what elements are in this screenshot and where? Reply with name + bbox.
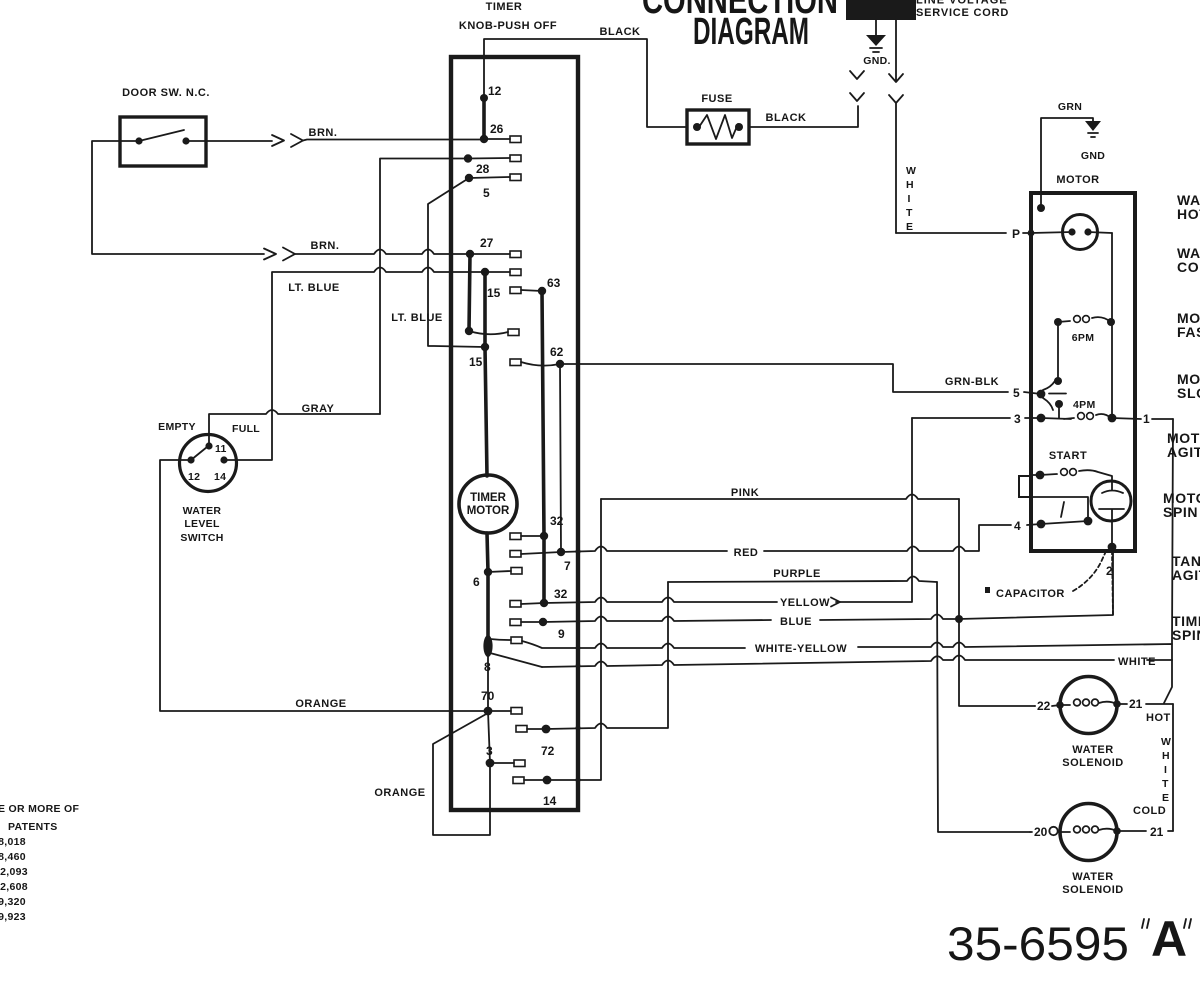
svg-text:BLACK: BLACK bbox=[766, 112, 807, 124]
svg-text:MOTOR: MOTOR bbox=[1056, 174, 1099, 186]
svg-text:62: 62 bbox=[550, 345, 564, 359]
svg-text:12,093: 12,093 bbox=[0, 866, 28, 878]
wire door switch left to BRN row2 bbox=[92, 141, 264, 254]
door switch blade bbox=[139, 130, 184, 141]
terminal 32 lower bbox=[510, 601, 521, 608]
svg-text:CAPACITOR: CAPACITOR bbox=[996, 588, 1065, 600]
wire 62 to GRN-BLK to motor 5 bbox=[560, 364, 1041, 394]
svg-text:GND: GND bbox=[1081, 150, 1105, 162]
terminal 5 bbox=[510, 174, 521, 181]
coil 6PM bbox=[1054, 318, 1062, 326]
svg-text:W: W bbox=[906, 165, 916, 177]
wire PURPLE horizontal bbox=[668, 577, 937, 583]
terminal 27 bbox=[510, 251, 521, 258]
ground symbol (motor) bbox=[1085, 121, 1101, 131]
svg-text:21: 21 bbox=[1150, 825, 1164, 839]
label CAPACITOR with leader bbox=[985, 587, 990, 593]
svg-text:LINE VOLTAGE: LINE VOLTAGE bbox=[916, 0, 1008, 7]
svg-text:AGIT: AGIT bbox=[1172, 567, 1200, 583]
wire 20 bbox=[1030, 831, 1050, 834]
svg-text:GND.: GND. bbox=[863, 55, 890, 67]
wire terminal to node 32 lower bbox=[521, 603, 544, 604]
svg-text:GRAY: GRAY bbox=[302, 403, 335, 415]
node 32 upper bbox=[540, 532, 548, 540]
svg-text:LT. BLUE: LT. BLUE bbox=[288, 282, 339, 294]
svg-text:1: 1 bbox=[1143, 412, 1150, 426]
node 70 bbox=[484, 707, 493, 716]
svg-text:32: 32 bbox=[550, 514, 564, 528]
WLS contact 11 bbox=[205, 442, 212, 449]
svg-text:88,018: 88,018 bbox=[0, 836, 26, 848]
wire GRAY: down to water level switch 11, hop at 272 bbox=[209, 410, 380, 446]
cold solenoid coil bbox=[1058, 829, 1117, 832]
terminal 32 upper bbox=[510, 533, 521, 540]
svg-text:YELLOW: YELLOW bbox=[780, 597, 830, 609]
svg-text:AGIT: AGIT bbox=[1167, 444, 1200, 460]
svg-text:SERVICE CORD: SERVICE CORD bbox=[916, 7, 1009, 19]
node 2 bbox=[1108, 543, 1117, 552]
svg-text:21: 21 bbox=[1129, 697, 1143, 711]
wire terminal 7 to node 7 bbox=[521, 552, 561, 554]
WLS blade 12-11 bbox=[191, 447, 207, 460]
svg-text:START: START bbox=[1049, 450, 1087, 462]
node 5 motor bbox=[1037, 390, 1046, 399]
wire white (from blob) bbox=[542, 656, 1172, 668]
terminal 15 upper bbox=[510, 287, 521, 294]
node P on motor box bbox=[1028, 230, 1035, 237]
svg-text:BLACK: BLACK bbox=[600, 26, 641, 38]
node blue-pink junction bbox=[955, 615, 963, 623]
protector leads bbox=[1031, 232, 1112, 233]
svg-text:COLD: COLD bbox=[1177, 259, 1200, 275]
svg-text:HOT: HOT bbox=[1177, 206, 1200, 222]
wire GRN to ground bbox=[1041, 118, 1093, 208]
centrifugal switch circle bbox=[1091, 481, 1131, 521]
wire black lead stub to fuse bbox=[749, 106, 858, 127]
svg-text:6: 6 bbox=[473, 575, 480, 589]
terminal 7 bbox=[510, 551, 521, 558]
junction blob bbox=[483, 635, 492, 657]
svg-text:WHITE-YELLOW: WHITE-YELLOW bbox=[755, 643, 847, 655]
terminal 28 bbox=[510, 155, 521, 162]
node 3 bbox=[486, 759, 495, 768]
node 27 bbox=[466, 250, 474, 258]
WLS contact 14 bbox=[220, 456, 227, 463]
svg-text:E: E bbox=[1162, 792, 1169, 804]
node 331 bbox=[465, 327, 473, 335]
wire motor 3 feed bbox=[912, 417, 1041, 419]
svg-text:28: 28 bbox=[476, 162, 490, 176]
svg-text:49,320: 49,320 bbox=[0, 896, 26, 908]
water level switch circle bbox=[180, 435, 237, 492]
WLS contact 12 bbox=[187, 456, 194, 463]
svg-text:14: 14 bbox=[214, 471, 226, 483]
svg-text:BRN.: BRN. bbox=[309, 127, 338, 139]
door switch contacts bbox=[135, 137, 142, 144]
timer box bbox=[451, 57, 578, 810]
svg-text:TIMER: TIMER bbox=[470, 492, 506, 504]
svg-text:52,608: 52,608 bbox=[0, 881, 28, 893]
wire lt.blue: full contact 14 up and right to timer, hops bbox=[224, 268, 485, 461]
motor box bbox=[1031, 193, 1135, 551]
terminal 6 bbox=[511, 568, 522, 575]
svg-text:49,923: 49,923 bbox=[0, 911, 26, 923]
white lead with arrow bbox=[889, 20, 903, 82]
svg-text:7: 7 bbox=[564, 559, 571, 573]
wire BRN row1 to timer 26 bbox=[303, 140, 485, 141]
bus blob down to 70 and 3 bbox=[488, 655, 490, 810]
svg-text:WATER: WATER bbox=[1072, 871, 1113, 883]
svg-text:FUSE: FUSE bbox=[701, 93, 732, 105]
svg-text:DOOR SW. N.C.: DOOR SW. N.C. bbox=[122, 87, 210, 99]
svg-text:GRN: GRN bbox=[1058, 101, 1082, 113]
node cold right bbox=[1113, 827, 1121, 835]
wire terminal to node 62 bbox=[521, 362, 560, 366]
node crossings on timer edge bbox=[575, 549, 580, 554]
node 72 bbox=[542, 725, 551, 734]
wire 70 to terminal bbox=[488, 710, 511, 712]
svg-text:98,460: 98,460 bbox=[0, 851, 26, 863]
wire white lead to motor P bbox=[896, 232, 1031, 234]
wire 2 to blue bbox=[1112, 551, 1113, 615]
svg-text:GRN-BLK: GRN-BLK bbox=[945, 376, 999, 388]
svg-text:FAST: FAST bbox=[1177, 324, 1200, 340]
node 7 bbox=[557, 548, 565, 556]
wire terminal to node 14b bbox=[524, 779, 547, 781]
node 4 motor bbox=[1037, 520, 1046, 529]
thermal protector circle bbox=[1063, 215, 1098, 250]
node mid272 bbox=[481, 268, 489, 276]
wire purple dropper to cold solenoid bbox=[937, 582, 1030, 832]
wire terminal to node 63 bbox=[521, 290, 542, 291]
terminal 26 bbox=[510, 136, 521, 143]
start switch interior wiring bbox=[1031, 497, 1088, 519]
start winding tab bbox=[1019, 476, 1031, 497]
svg-text:PINK: PINK bbox=[731, 487, 759, 499]
terminal 14b bbox=[513, 777, 524, 784]
svg-text:BLUE: BLUE bbox=[780, 616, 812, 628]
svg-text:15: 15 bbox=[469, 355, 483, 369]
svg-text:WATER: WATER bbox=[183, 505, 222, 517]
wire WHITE-YELLOW bbox=[522, 641, 1172, 660]
svg-text:SOLENOID: SOLENOID bbox=[1062, 757, 1123, 769]
wire 5 to terminal bbox=[469, 177, 510, 178]
svg-text:5: 5 bbox=[1013, 386, 1020, 400]
door switch box bbox=[120, 117, 206, 166]
svg-text:WATER: WATER bbox=[1072, 744, 1113, 756]
wire from timer 5 diagonal and down to 15 bbox=[428, 178, 485, 347]
fuse F1 box bbox=[687, 110, 749, 144]
svg-text:KNOB-PUSH OFF: KNOB-PUSH OFF bbox=[459, 20, 557, 32]
svg-text:H: H bbox=[1162, 750, 1170, 762]
node 14b bbox=[543, 776, 552, 785]
black lead disconnect chevrons bbox=[850, 71, 864, 101]
svg-text:DIAGRAM: DIAGRAM bbox=[693, 11, 809, 53]
speed switch blades bbox=[1043, 379, 1066, 410]
switch plates bbox=[1099, 481, 1124, 521]
bus 32 upper to 32 lower bbox=[542, 536, 546, 603]
node 4PM contact bbox=[1055, 400, 1063, 408]
connector arrow row1 bbox=[272, 135, 284, 146]
node 62 bbox=[556, 360, 564, 368]
wire 14 extension up to pink bbox=[547, 499, 601, 780]
svg-text:35-6595: 35-6595 bbox=[947, 917, 1129, 970]
wire 331 to terminal bbox=[469, 331, 508, 334]
node 5 bbox=[465, 174, 473, 182]
svg-text:LT. BLUE: LT. BLUE bbox=[391, 312, 442, 324]
cold solenoid circle bbox=[1060, 804, 1117, 861]
svg-text:WHITE: WHITE bbox=[1118, 656, 1156, 668]
wire orange loop from timer 70 to bottom re-entry bbox=[433, 713, 490, 835]
wire 28 to terminal bbox=[468, 157, 510, 160]
bus mid272 to 15 bbox=[483, 272, 487, 347]
connector female row1 bbox=[291, 134, 303, 147]
wire RED from node 7 bbox=[561, 524, 1041, 552]
wire BRN row2 to timer 27 with hops bbox=[295, 250, 470, 255]
wire 12 to 26 bbox=[482, 98, 486, 139]
node start coil left bbox=[1036, 471, 1045, 480]
bus 15 down through timer motor bbox=[485, 347, 488, 572]
terminal 331 bbox=[508, 329, 519, 336]
svg-text:SWITCH: SWITCH bbox=[180, 532, 223, 544]
wire to terminal 2 bbox=[1111, 521, 1113, 545]
wire white net: motor1 down to junction bbox=[1172, 419, 1173, 644]
wire 3 to terminal bbox=[490, 762, 514, 764]
svg-text:12: 12 bbox=[488, 84, 502, 98]
svg-text:ORANGE: ORANGE bbox=[295, 698, 346, 710]
terminal white-yellow bbox=[511, 637, 522, 644]
svg-text:6PM: 6PM bbox=[1072, 332, 1095, 344]
wire pink dropper to hot solenoid bbox=[959, 499, 1035, 706]
wire 72 extension up to purple bbox=[546, 582, 668, 729]
wire motor terminal 1 bbox=[1112, 418, 1173, 419]
wire terminal 72 to node bbox=[527, 728, 546, 730]
node 12 bbox=[480, 94, 488, 102]
terminal 9 bbox=[510, 619, 521, 626]
svg-text:27: 27 bbox=[480, 236, 494, 250]
svg-text:E OR MORE OF: E OR MORE OF bbox=[0, 803, 79, 815]
fuse element bbox=[693, 123, 701, 131]
svg-text:I: I bbox=[1164, 764, 1167, 776]
ground symbol GND (service cord) bbox=[875, 20, 877, 35]
svg-text:RED: RED bbox=[734, 547, 759, 559]
svg-text:ORANGE: ORANGE bbox=[374, 787, 425, 799]
wire timer 12 to fuse bbox=[484, 39, 687, 127]
svg-text:9: 9 bbox=[558, 627, 565, 641]
coil START bbox=[1031, 474, 1057, 475]
svg-text:SPIN: SPIN bbox=[1163, 504, 1198, 520]
svg-text:W: W bbox=[1161, 736, 1171, 748]
svg-text:T: T bbox=[1162, 778, 1169, 790]
svg-text:A: A bbox=[1151, 911, 1187, 967]
wire BLUE from node 9 bbox=[543, 551, 1113, 622]
svg-text:H: H bbox=[906, 179, 914, 191]
wire mid272 to terminal bbox=[485, 271, 510, 273]
wire WLS 12 to orange row bbox=[160, 460, 488, 711]
node 26 bbox=[480, 135, 488, 143]
node hot left bbox=[1056, 701, 1064, 709]
terminal 70 bbox=[511, 708, 522, 715]
svg-text:PURPLE: PURPLE bbox=[773, 568, 821, 580]
bus 62 down to 7 bbox=[560, 364, 561, 552]
svg-text:3: 3 bbox=[486, 744, 493, 758]
bus 63 down to 32 bbox=[542, 291, 544, 536]
node 9 (blue) bbox=[539, 618, 547, 626]
wire cold 21 bbox=[1117, 830, 1173, 832]
wire terminal to node 32 upper bbox=[521, 535, 544, 537]
svg-text:4: 4 bbox=[1014, 519, 1021, 533]
hot solenoid circle bbox=[1060, 677, 1117, 734]
svg-text:E: E bbox=[906, 221, 913, 233]
connector arrow row2 bbox=[264, 249, 276, 260]
node start contact bbox=[1084, 517, 1093, 526]
wire 27 to terminal bbox=[470, 253, 510, 255]
node grn inside motor bbox=[1037, 204, 1045, 212]
svg-text:3: 3 bbox=[1014, 412, 1021, 426]
wire 6PM to speed switch bbox=[1057, 322, 1059, 381]
terminal 62 bbox=[510, 359, 521, 366]
wire PINK horizontal bbox=[601, 495, 959, 500]
svg-text:11: 11 bbox=[215, 443, 227, 455]
svg-text:26: 26 bbox=[490, 122, 504, 136]
wire hot 21 bbox=[1117, 703, 1173, 705]
stub 4PM to 3 wire bbox=[1058, 404, 1060, 418]
node 28 bbox=[464, 154, 472, 162]
node 15 bbox=[481, 343, 489, 351]
node 6 on bus bbox=[484, 568, 492, 576]
svg-text:SPIN: SPIN bbox=[1172, 627, 1200, 643]
wire YELLOW from 32 lower bbox=[544, 418, 912, 603]
bus 6 to junction blob bbox=[486, 572, 490, 637]
svg-text:20: 20 bbox=[1034, 825, 1048, 839]
timer motor circle bbox=[459, 475, 517, 533]
service cord plug (black block) bbox=[846, 0, 916, 20]
motor right bus bbox=[1111, 233, 1113, 418]
svg-text:15: 15 bbox=[487, 286, 501, 300]
svg-text:EMPTY: EMPTY bbox=[158, 421, 196, 433]
protector contacts bbox=[1068, 228, 1075, 235]
node coil right / bus bbox=[1108, 414, 1117, 423]
terminal mid272 bbox=[510, 269, 521, 276]
open terminal 20 bbox=[1049, 827, 1057, 835]
svg-text:SLOW: SLOW bbox=[1177, 385, 1200, 401]
svg-text:PATENTS: PATENTS bbox=[8, 821, 58, 833]
svg-text:I: I bbox=[908, 193, 911, 205]
bus 27 to node331 bbox=[469, 254, 470, 331]
wire white junction down / diagonal to hot 21 bbox=[1164, 660, 1173, 831]
wire blob diagonal to white wire bbox=[490, 653, 542, 667]
svg-text:BRN.: BRN. bbox=[311, 240, 340, 252]
wire node6 to terminal bbox=[488, 571, 511, 572]
wire A: timer 28 left, down to gray row bbox=[380, 159, 468, 415]
svg-text:LEVEL: LEVEL bbox=[184, 518, 220, 530]
svg-text:TIMER: TIMER bbox=[486, 1, 523, 13]
blade tick bbox=[1061, 502, 1064, 517]
hot solenoid coil bbox=[1060, 702, 1117, 705]
node hot right bbox=[1113, 700, 1121, 708]
node 3 motor bbox=[1037, 414, 1046, 423]
svg-text:22: 22 bbox=[1037, 699, 1051, 713]
svg-text:5: 5 bbox=[483, 186, 490, 200]
wire terminal to node 9 bbox=[521, 621, 543, 623]
white lead female connector Y bbox=[889, 95, 903, 233]
terminal 3 bbox=[514, 760, 525, 767]
svg-text:70: 70 bbox=[481, 689, 495, 703]
coil 4PM bbox=[1041, 418, 1074, 419]
svg-text:T: T bbox=[906, 207, 913, 219]
svg-text:P: P bbox=[1012, 227, 1020, 241]
wire 26 to terminal bbox=[484, 138, 510, 140]
svg-text:12: 12 bbox=[188, 471, 200, 483]
node speed upper bbox=[1054, 377, 1062, 385]
svg-text:63: 63 bbox=[547, 276, 561, 290]
svg-text:HOT: HOT bbox=[1146, 712, 1171, 724]
start switch blade bbox=[1041, 521, 1088, 524]
svg-text:32: 32 bbox=[554, 587, 568, 601]
svg-text:14: 14 bbox=[543, 794, 557, 808]
svg-text:72: 72 bbox=[541, 744, 555, 758]
node 63 bbox=[538, 287, 546, 295]
terminal 72 bbox=[516, 726, 527, 733]
wire blob to terminal white-yellow bbox=[490, 639, 511, 640]
connector female row2 bbox=[283, 248, 295, 261]
svg-text:MOTOR: MOTOR bbox=[467, 505, 510, 517]
wire door switch right to BRN row1 bbox=[186, 140, 272, 142]
svg-text:COLD: COLD bbox=[1133, 805, 1166, 817]
svg-text:SOLENOID: SOLENOID bbox=[1062, 884, 1123, 896]
wire 22 bbox=[1035, 705, 1060, 706]
node 32 lower (yellow) bbox=[540, 599, 548, 607]
svg-text:4PM: 4PM bbox=[1073, 399, 1096, 411]
svg-text:FULL: FULL bbox=[232, 423, 260, 435]
